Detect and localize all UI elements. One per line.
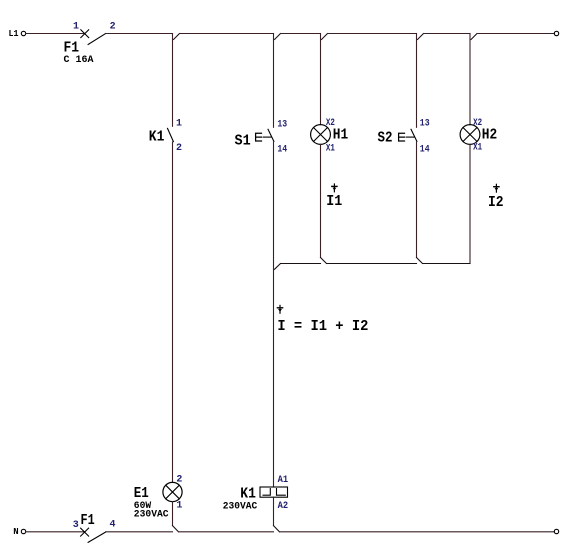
terminal bottom right <box>554 529 558 533</box>
svg-text:N: N <box>13 527 18 537</box>
wire H2 branch upper <box>469 34 471 125</box>
svg-text:3: 3 <box>73 520 79 531</box>
wire E1 to bottom bus <box>172 502 174 526</box>
svg-text:C 16A: C 16A <box>64 55 94 66</box>
svg-text:230VAC: 230VAC <box>134 510 169 521</box>
svg-text:13: 13 <box>420 118 430 129</box>
svg-text:1: 1 <box>73 22 79 33</box>
svg-text:I = I1 + I2: I = I1 + I2 <box>277 318 368 335</box>
terminal N <box>21 529 25 533</box>
svg-text:2: 2 <box>176 474 182 485</box>
wire mid bus node J to H2 corner <box>423 263 471 265</box>
svg-text:X2: X2 <box>473 118 482 129</box>
wire S1 branch upper <box>273 34 275 128</box>
svg-text:H1: H1 <box>333 127 348 144</box>
svg-text:K1: K1 <box>240 485 256 502</box>
wire top bus node C to node D <box>328 33 417 35</box>
svg-text:F1: F1 <box>81 512 95 529</box>
wire mid bus node G to node I <box>281 263 321 265</box>
junction node H (bottom bus / coil branch) <box>274 526 280 532</box>
junction node J (mid bus / S2 branch) <box>417 258 423 264</box>
junction node G (mid bus / S1 branch) <box>275 264 281 270</box>
svg-text:2: 2 <box>110 22 116 33</box>
svg-text:S1: S1 <box>235 133 251 150</box>
breaker F1 lower pole <box>73 512 116 543</box>
pushbutton S2 <box>378 118 430 155</box>
wire top bus node E to right terminal <box>477 33 554 35</box>
svg-text:F1: F1 <box>64 40 80 57</box>
current arrow I1 <box>326 184 342 210</box>
wire mid bus node I to node J <box>327 263 417 265</box>
svg-text:A1: A1 <box>278 475 289 486</box>
terminal L1 <box>21 31 25 35</box>
current arrow I <box>277 305 368 335</box>
svg-text:230VAC: 230VAC <box>223 501 257 512</box>
wire K1 to E1 <box>172 142 174 482</box>
svg-text:2: 2 <box>176 143 182 154</box>
junction node E (top bus / H2 branch) <box>471 34 477 40</box>
svg-text:13: 13 <box>277 120 287 131</box>
lamp H2 <box>460 118 497 153</box>
svg-text:I2: I2 <box>488 194 504 211</box>
svg-text:A2: A2 <box>278 501 289 512</box>
svg-text:14: 14 <box>420 144 430 155</box>
wire top bus F1 to node A <box>106 33 173 35</box>
junction node F (bottom bus / E1 branch) <box>173 526 179 532</box>
junction node I (mid bus / H1 branch) <box>321 258 327 264</box>
svg-text:H2: H2 <box>482 127 497 144</box>
contact K1 <box>149 119 182 155</box>
wire bottom bus F1 to node F <box>106 531 173 533</box>
breaker F1 upper pole <box>64 22 116 67</box>
wire S2 to mid bus <box>416 142 418 258</box>
svg-text:4: 4 <box>110 520 116 531</box>
svg-text:E1: E1 <box>134 485 149 502</box>
junction node A (top bus / K1 branch) <box>174 34 180 40</box>
lamp E1 <box>134 474 183 520</box>
wire H1 branch upper <box>320 34 322 125</box>
svg-text:I1: I1 <box>326 193 342 210</box>
wire top bus node B to node C <box>281 33 321 35</box>
wire L1 terminal to F1 <box>26 33 85 35</box>
svg-text:X2: X2 <box>326 118 335 129</box>
wire K1 coil to bottom bus <box>273 497 275 525</box>
svg-text:1: 1 <box>176 501 182 512</box>
wire top bus node A to node B <box>180 33 274 35</box>
wire S2 branch upper <box>416 34 418 128</box>
svg-text:X1: X1 <box>473 142 482 153</box>
wire bottom bus node H to right terminal <box>280 531 555 533</box>
wire N terminal to F1 <box>26 531 85 533</box>
wire K1 branch upper <box>172 34 174 127</box>
svg-text:1: 1 <box>176 119 182 130</box>
junction node C (top bus / H1 branch) <box>322 34 328 40</box>
junction node B (top bus / S1 branch) <box>275 34 281 40</box>
svg-text:K1: K1 <box>149 128 165 145</box>
lamp H1 <box>311 118 349 155</box>
pushbutton S1 <box>235 120 288 156</box>
svg-text:X1: X1 <box>326 144 335 155</box>
terminal top right <box>554 31 558 35</box>
svg-text:L1: L1 <box>9 29 20 39</box>
wire top bus node D to node E <box>424 33 471 35</box>
wire H1 to mid bus <box>320 144 322 257</box>
wire bottom bus node F to node H <box>179 531 274 533</box>
current arrow I2 <box>488 184 504 211</box>
junction node D (top bus / S2 branch) <box>418 34 424 40</box>
wire S1 to K1 coil through node G <box>273 142 275 487</box>
wire H2 to mid bus corner <box>469 144 471 263</box>
svg-text:S2: S2 <box>378 130 393 147</box>
coil K1 <box>223 475 288 512</box>
svg-text:14: 14 <box>277 145 287 156</box>
